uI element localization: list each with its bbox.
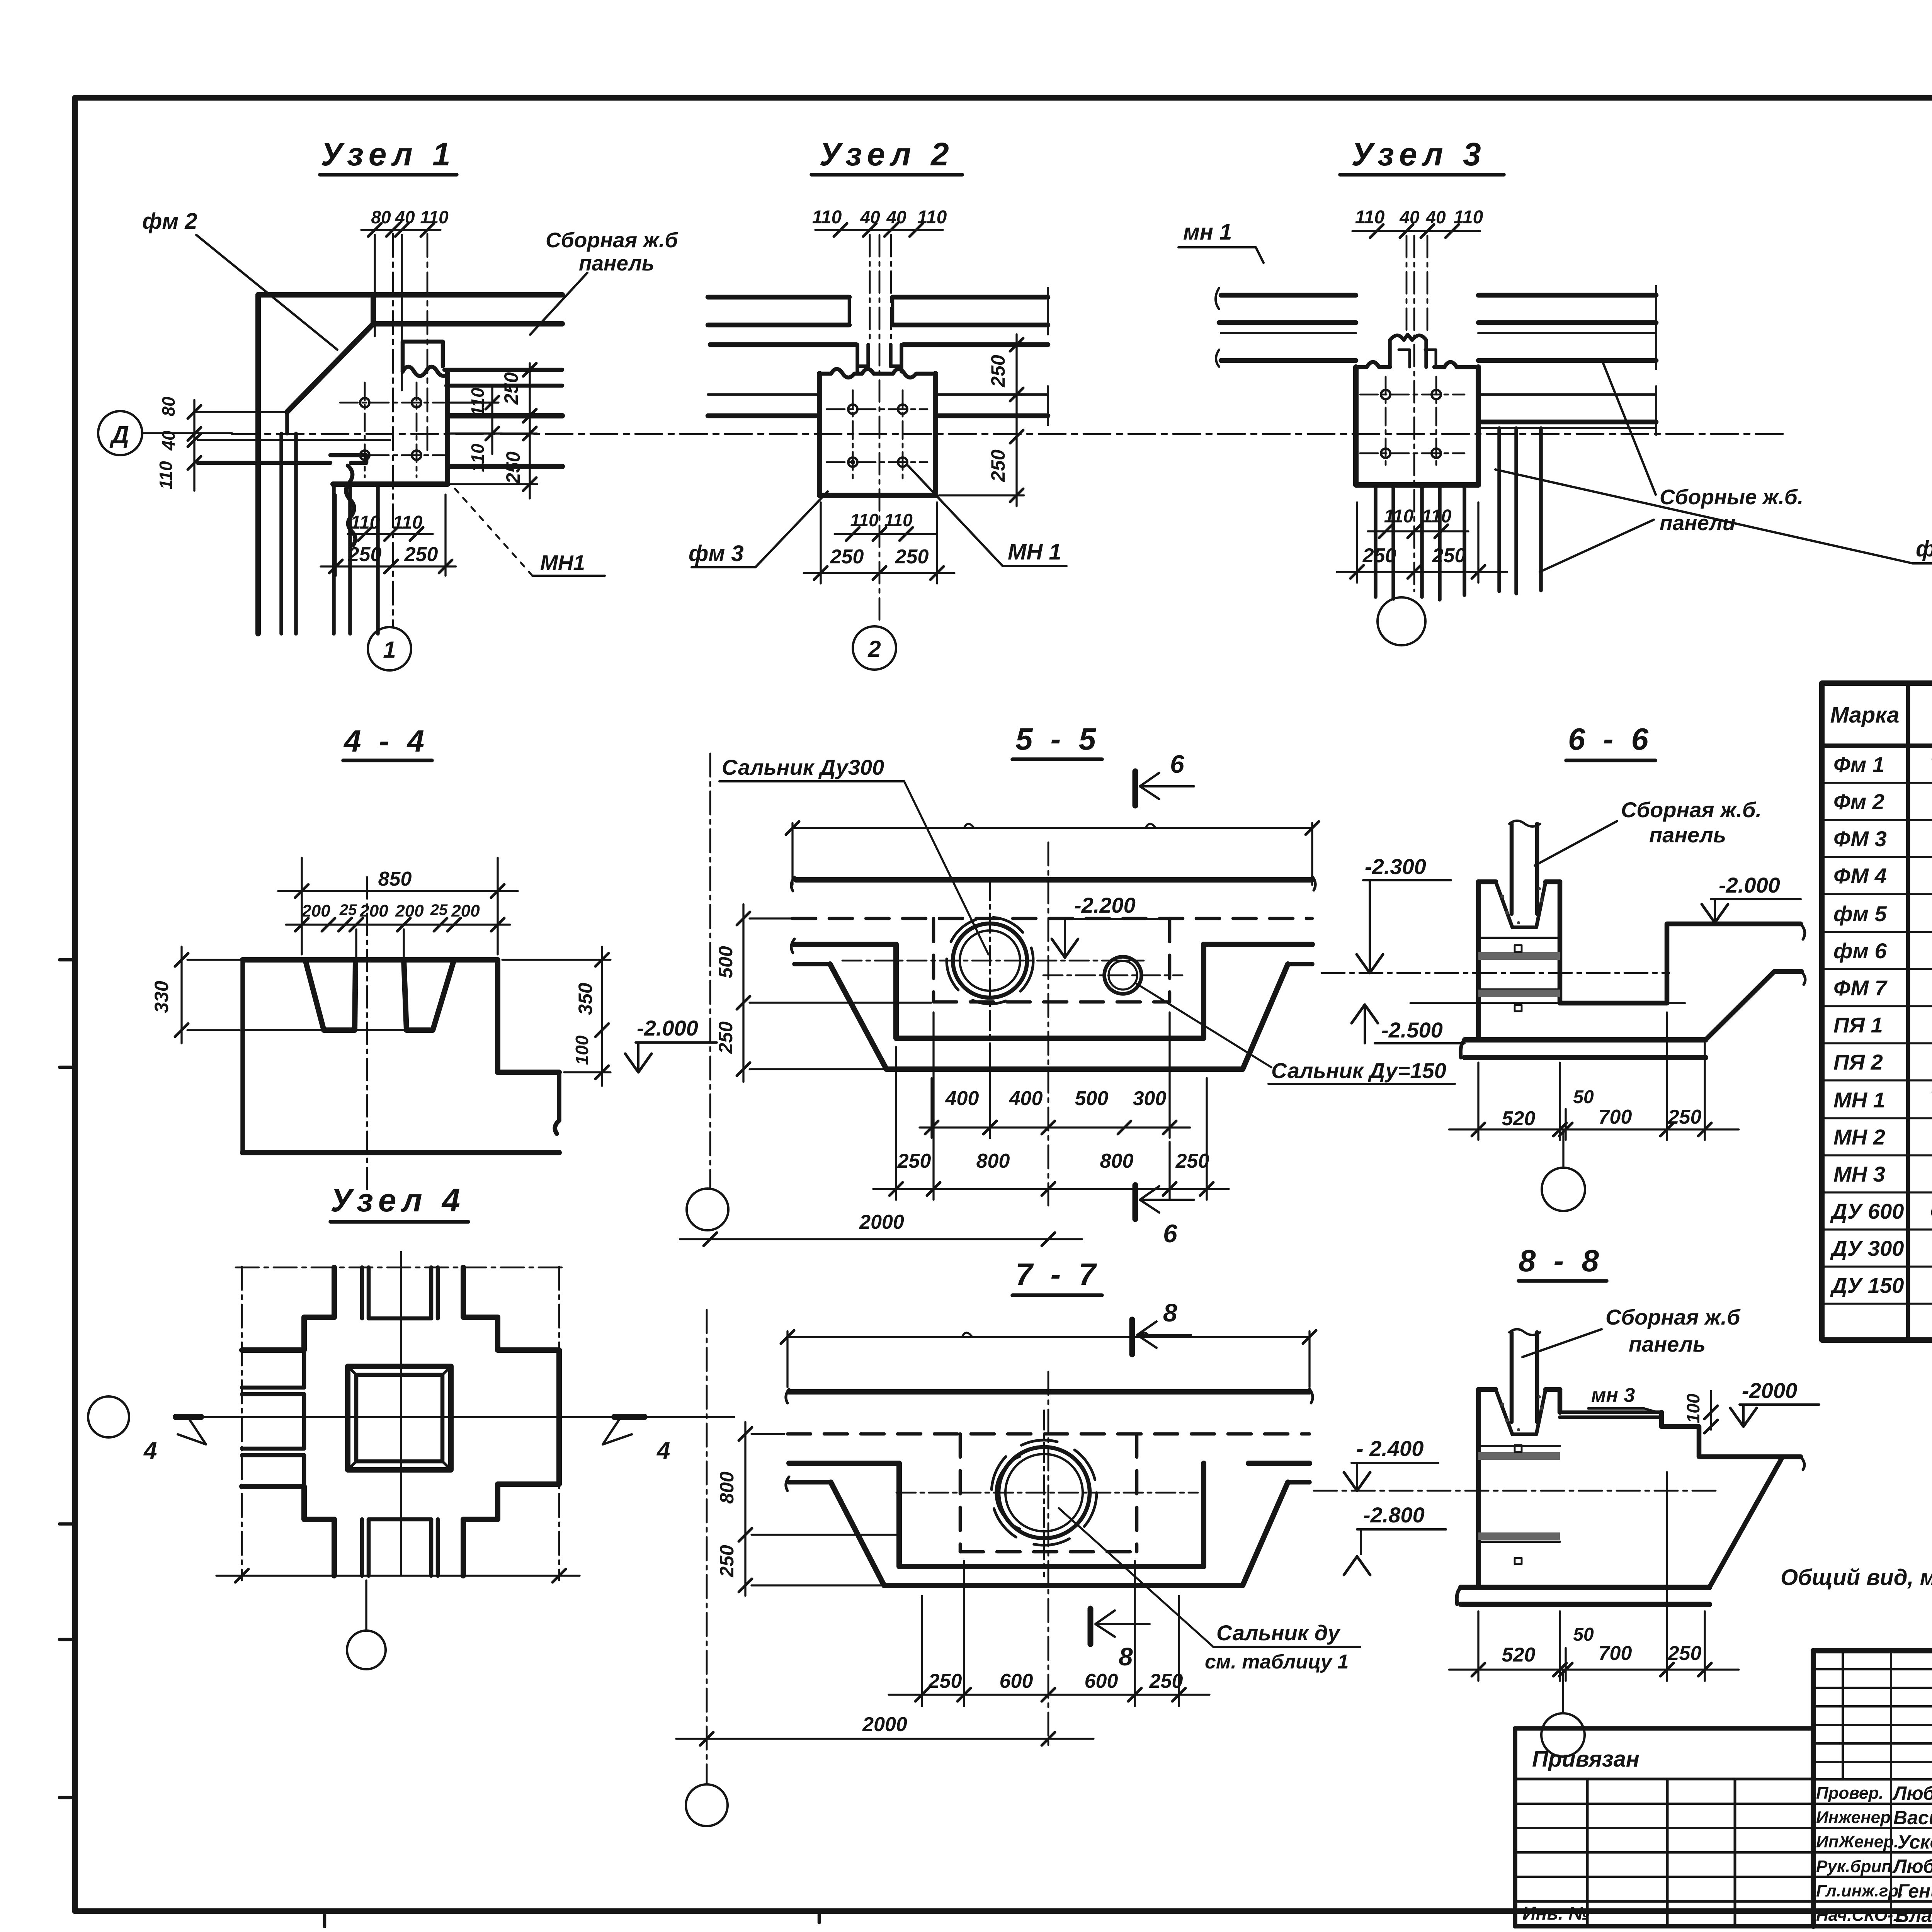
svg-text:250: 250 xyxy=(716,1545,738,1578)
svg-text:фм 2: фм 2 xyxy=(142,209,197,234)
svg-text:520: 520 xyxy=(1502,1644,1536,1666)
svg-text:110: 110 xyxy=(350,512,380,533)
signature rows xyxy=(1813,1804,1932,1901)
bolts uzel3 xyxy=(1381,390,1390,399)
svg-text:ДУ 150: ДУ 150 xyxy=(1830,1273,1904,1298)
V socket dots 8-8 xyxy=(1500,1395,1544,1431)
svg-text:4: 4 xyxy=(656,1437,670,1464)
hatch bands 8-8 xyxy=(1478,1445,1560,1564)
svg-text:250: 250 xyxy=(895,546,929,568)
svg-text:-2.300: -2.300 xyxy=(1365,854,1426,879)
svg-text:110: 110 xyxy=(850,510,879,530)
svg-text:50: 50 xyxy=(1573,1624,1594,1645)
svg-text:Сборная ж.б.: Сборная ж.б. xyxy=(1621,798,1762,822)
bottom arm walls xyxy=(362,1519,438,1576)
svg-text:250: 250 xyxy=(1432,544,1466,567)
section 6 mark bottom xyxy=(1133,1185,1138,1219)
svg-text:-2.000: -2.000 xyxy=(1719,873,1780,897)
svg-text:Васильева: Васильева xyxy=(1893,1807,1932,1828)
left socket below axis xyxy=(330,455,366,463)
svg-text:110: 110 xyxy=(393,512,423,533)
svg-text:600: 600 xyxy=(1000,1670,1033,1692)
bottom-right quadrant xyxy=(463,1484,559,1576)
bottom dim line uzel4 xyxy=(216,1575,580,1577)
floor right of column 8-8 xyxy=(1560,1412,1662,1417)
svg-text:250: 250 xyxy=(502,451,524,484)
svg-text:2: 2 xyxy=(867,636,881,662)
top dim line 7-7 xyxy=(787,1331,1310,1387)
top arm walls xyxy=(362,1267,438,1318)
right arm wall xyxy=(556,1350,562,1484)
svg-text:500: 500 xyxy=(1075,1087,1109,1110)
svg-text:-2.000: -2.000 xyxy=(637,1016,698,1040)
svg-text:80: 80 xyxy=(158,396,179,417)
chamfer xyxy=(287,324,373,412)
svg-text:250: 250 xyxy=(987,355,1009,388)
svg-text:50: 50 xyxy=(1573,1087,1594,1107)
column top wavy xyxy=(820,369,935,378)
svg-text:МН 1: МН 1 xyxy=(1008,539,1061,565)
svg-text:-2.800: -2.800 xyxy=(1363,1503,1425,1527)
svg-text:250: 250 xyxy=(830,546,864,568)
svg-text:800: 800 xyxy=(716,1471,738,1504)
svg-text:Узел 4: Узел 4 xyxy=(330,1182,466,1218)
V socket dots xyxy=(1500,887,1544,924)
svg-text:8: 8 xyxy=(1119,1642,1133,1671)
svg-text:ФМ 4: ФМ 4 xyxy=(1833,864,1887,888)
svg-text:Рук.брип: Рук.брип xyxy=(1816,1857,1892,1876)
svg-text:ПЯ 1: ПЯ 1 xyxy=(1833,1013,1883,1037)
leader panel label xyxy=(530,273,587,335)
svg-text:1: 1 xyxy=(383,637,396,663)
svg-text:Ускова: Ускова xyxy=(1897,1831,1932,1853)
svg-text:250: 250 xyxy=(1668,1642,1702,1665)
svg-text:фм 6: фм 6 xyxy=(1833,939,1887,963)
svg-text:- 2.400: - 2.400 xyxy=(1356,1436,1423,1461)
svg-text:Д: Д xyxy=(109,421,129,449)
svg-text:фм 4: фм 4 xyxy=(1916,536,1932,561)
svg-text:фм 3: фм 3 xyxy=(689,541,744,566)
column right edge xyxy=(445,372,450,484)
svg-text:8: 8 xyxy=(1163,1298,1177,1327)
svg-text:250: 250 xyxy=(348,543,382,566)
svg-text:Власкин: Власкин xyxy=(1895,1905,1932,1926)
Privyazan box xyxy=(1515,1728,1813,1926)
svg-text:мн 3: мн 3 xyxy=(1591,1384,1635,1406)
svg-text:110: 110 xyxy=(468,388,488,416)
central square inner xyxy=(356,1375,442,1461)
piles below xyxy=(1376,485,1464,600)
svg-text:700: 700 xyxy=(1599,1106,1632,1128)
svg-text:250: 250 xyxy=(928,1670,962,1692)
svg-text:Гл.инж.гр.: Гл.инж.гр. xyxy=(1816,1881,1903,1900)
svg-text:40: 40 xyxy=(1425,207,1446,227)
svg-text:40: 40 xyxy=(1399,207,1420,227)
svg-text:см. таблицу 1: см. таблицу 1 xyxy=(1205,1651,1349,1673)
svg-text:6: 6 xyxy=(1170,750,1185,778)
piles below column xyxy=(334,484,378,634)
svg-text:2000: 2000 xyxy=(862,1713,907,1736)
section 8 mark top xyxy=(1129,1320,1135,1354)
panel in socket 8-8 xyxy=(1457,1329,1804,1604)
section 4 marks xyxy=(176,1414,201,1420)
uzel4 cross outline xyxy=(242,1267,559,1576)
svg-text:250: 250 xyxy=(897,1150,931,1172)
axis 4-4 xyxy=(366,877,368,1194)
bevels xyxy=(348,1366,451,1470)
svg-text:ДУ 300: ДУ 300 xyxy=(1830,1236,1904,1260)
svg-text:110: 110 xyxy=(1355,207,1385,228)
svg-text:ФМ 3: ФМ 3 xyxy=(1833,827,1887,851)
outer borders xyxy=(1813,1648,1932,1653)
svg-text:ТП 901-6-62— КЖ 2÷5: ТП 901-6-62— КЖ 2÷5 xyxy=(1930,752,1932,777)
svg-text:фм 5: фм 5 xyxy=(1833,901,1887,926)
svg-text:Сборная ж.б: Сборная ж.б xyxy=(546,228,679,252)
column uzel3 xyxy=(1356,367,1478,485)
panel in socket 6-6 xyxy=(1461,821,1805,1058)
upper-left grid verticals xyxy=(1843,1651,1932,1926)
svg-text:110: 110 xyxy=(884,510,913,530)
hidden dashed lines xyxy=(793,918,1312,1002)
left dims 500 250 xyxy=(743,904,931,1082)
panels uzel2 xyxy=(708,288,1048,495)
svg-text:ПЯ 2: ПЯ 2 xyxy=(1833,1050,1883,1074)
signature table texts xyxy=(1816,1784,1903,1925)
svg-text:панель: панель xyxy=(579,251,655,275)
dims right of uzel1: 110/250 xyxy=(450,363,537,498)
svg-text:800: 800 xyxy=(976,1150,1010,1172)
axis 6-6 xyxy=(1321,972,1669,974)
section 8 mark bottom xyxy=(1088,1609,1094,1644)
left vertical axis line xyxy=(709,753,711,1188)
svg-text:7 - 7: 7 - 7 xyxy=(1015,1257,1100,1291)
bottom-left quadrant xyxy=(242,1486,334,1576)
svg-text:200: 200 xyxy=(451,901,480,920)
bolt axes xyxy=(340,383,444,477)
left wall verticals xyxy=(255,295,261,634)
axes inside 5-5 xyxy=(989,881,991,1043)
hatch bands 6-6 xyxy=(1478,945,1560,1011)
axis circle uzel3 xyxy=(1378,597,1425,645)
panels uzel3 xyxy=(1216,286,1656,600)
axis circle D xyxy=(98,411,142,455)
column xyxy=(820,374,935,495)
svg-text:Узел 2: Узел 2 xyxy=(819,136,954,172)
svg-text:панель: панель xyxy=(1629,1332,1706,1356)
svg-text:Сальник Ду=150: Сальник Ду=150 xyxy=(1271,1058,1446,1083)
svg-text:110: 110 xyxy=(156,461,176,490)
svg-text:110: 110 xyxy=(812,207,842,228)
svg-text:330: 330 xyxy=(151,981,172,1013)
axis vertical uzel1 xyxy=(392,234,394,626)
circle 8-8 xyxy=(1562,1670,1564,1713)
svg-text:панели: панели xyxy=(1660,511,1735,535)
column bottom xyxy=(333,481,447,487)
hidden dashed lines 7-7 xyxy=(787,1434,1310,1552)
svg-text:Узел 3: Узел 3 xyxy=(1351,136,1486,172)
top slab lines xyxy=(198,295,562,634)
axis circle left xyxy=(88,1396,129,1437)
column 6-6 with V socket xyxy=(1496,882,1546,927)
right dims 250/250 xyxy=(939,334,1024,506)
panel socket top right xyxy=(403,342,443,372)
svg-text:100: 100 xyxy=(572,1035,592,1065)
svg-text:110: 110 xyxy=(1422,506,1452,527)
svg-text:5 - 5: 5 - 5 xyxy=(1015,722,1100,756)
top dim line 5-5 xyxy=(793,823,1312,885)
column 8-8 with V socket xyxy=(1496,1389,1546,1434)
circle 6-6 xyxy=(1562,1129,1564,1168)
svg-text:ТП 901-6-61— КЖИ-МН1: ТП 901-6-61— КЖИ-МН1 xyxy=(1930,1085,1932,1110)
svg-text:МН 2: МН 2 xyxy=(1833,1125,1885,1149)
bottom slab 6-6 xyxy=(1465,1037,1706,1043)
big pipe circle 7-7 xyxy=(998,1447,1090,1538)
leader FM2 xyxy=(196,235,337,350)
svg-text:Сборная ж.б: Сборная ж.б xyxy=(1605,1305,1741,1329)
svg-text:Геништа: Геништа xyxy=(1897,1880,1932,1902)
svg-text:МН1: МН1 xyxy=(540,551,585,575)
axis 8-8 xyxy=(1314,1490,1716,1492)
upper-left small grid rows xyxy=(1813,1669,1932,1779)
svg-text:Нач.СКО-1: Нач.СКО-1 xyxy=(1816,1906,1903,1925)
svg-text:600: 600 xyxy=(1085,1670,1118,1692)
axis circle bottom xyxy=(347,1631,386,1669)
svg-text:-2.500: -2.500 xyxy=(1381,1018,1443,1042)
svg-text:Инв. №: Инв. № xyxy=(1522,1903,1590,1924)
svg-text:2000: 2000 xyxy=(859,1211,904,1233)
svg-text:110: 110 xyxy=(468,444,488,472)
axis circle 1 xyxy=(368,627,411,670)
twin sockets top xyxy=(1390,335,1426,367)
svg-text:700: 700 xyxy=(1599,1642,1632,1665)
svg-text:4 - 4: 4 - 4 xyxy=(343,724,429,758)
main horizontal axis xyxy=(142,432,232,434)
svg-text:Любопытова: Любопытова xyxy=(1892,1782,1932,1804)
svg-text:Привязан: Привязан xyxy=(1532,1747,1639,1772)
section 6 mark top xyxy=(1133,771,1138,806)
dim line top uzel1 xyxy=(361,230,440,390)
axes 7-7 xyxy=(1043,1410,1045,1577)
panel joint sockets xyxy=(857,345,868,372)
svg-text:800: 800 xyxy=(1100,1150,1134,1172)
svg-text:4: 4 xyxy=(143,1437,157,1464)
svg-text:Провер.: Провер. xyxy=(1816,1784,1883,1803)
svg-text:ФМ 7: ФМ 7 xyxy=(1833,976,1888,1000)
svg-text:110: 110 xyxy=(1384,506,1414,527)
right panel lines xyxy=(444,368,562,372)
svg-text:520: 520 xyxy=(1502,1107,1536,1130)
svg-text:-2.200: -2.200 xyxy=(1074,893,1136,917)
svg-text:МН 3: МН 3 xyxy=(1833,1162,1885,1186)
svg-text:850: 850 xyxy=(378,868,412,890)
svg-text:250: 250 xyxy=(715,1021,736,1054)
svg-text:мн 1: мн 1 xyxy=(1183,219,1232,245)
bottom slab 8-8 xyxy=(1461,1585,1709,1590)
small pipe circle 5-5 xyxy=(1104,957,1141,994)
svg-text:200: 200 xyxy=(301,901,330,920)
svg-text:250: 250 xyxy=(500,372,522,405)
svg-text:250: 250 xyxy=(1362,544,1396,567)
svg-text:250: 250 xyxy=(1149,1670,1183,1692)
bolts uzel1 xyxy=(360,398,369,407)
table rows xyxy=(1830,752,1932,1298)
slab 5-5 xyxy=(791,876,1315,1069)
top-right quadrant xyxy=(463,1267,559,1350)
central square outer xyxy=(348,1366,451,1470)
svg-text:МН 1: МН 1 xyxy=(1833,1088,1885,1112)
svg-text:Сальник ду: Сальник ду xyxy=(1216,1621,1341,1645)
svg-text:Любопытова: Любопытова xyxy=(1892,1855,1932,1877)
svg-text:Серия 3.901-5: Серия 3.901-5 xyxy=(1930,1199,1932,1223)
svg-text:500: 500 xyxy=(715,946,736,978)
svg-text:6: 6 xyxy=(1163,1219,1178,1248)
svg-text:400: 400 xyxy=(1009,1087,1043,1110)
svg-text:Сальник Ду300: Сальник Ду300 xyxy=(722,755,884,779)
svg-text:8 - 8: 8 - 8 xyxy=(1519,1243,1604,1278)
svg-text:400: 400 xyxy=(945,1087,979,1110)
axis circle 2 xyxy=(853,626,896,670)
svg-text:Инженер: Инженер xyxy=(1816,1808,1891,1827)
svg-text:350: 350 xyxy=(575,983,596,1015)
svg-text:Марка: Марка xyxy=(1830,702,1899,728)
svg-text:Фм 2: Фм 2 xyxy=(1833,789,1884,814)
left dims 800 250 7-7 xyxy=(745,1422,896,1596)
svg-text:ИпЖенер.: ИпЖенер. xyxy=(1816,1832,1898,1851)
svg-text:Сборные ж.б.: Сборные ж.б. xyxy=(1660,485,1803,509)
svg-text:25: 25 xyxy=(339,901,357,918)
svg-text:250: 250 xyxy=(1175,1150,1209,1172)
svg-text:6 - 6: 6 - 6 xyxy=(1568,722,1653,756)
svg-text:-2000: -2000 xyxy=(1742,1378,1797,1403)
svg-text:ДУ 600: ДУ 600 xyxy=(1830,1199,1904,1223)
top-left quadrant xyxy=(242,1267,334,1350)
floor right of column xyxy=(1560,924,1801,1003)
big pipe circle 5-5 xyxy=(953,923,1027,998)
4-4 profile xyxy=(243,960,559,1153)
title underline xyxy=(320,173,457,177)
svg-text:25: 25 xyxy=(430,901,448,918)
right end ticks of panels xyxy=(1047,288,1049,425)
axes uzel4 xyxy=(236,1267,564,1580)
circle bottom 7-7 xyxy=(686,1784,728,1826)
svg-text:250: 250 xyxy=(987,449,1009,482)
bolts uzel2 xyxy=(848,405,857,414)
slab 7-7 xyxy=(786,1389,1313,1585)
svg-text:100: 100 xyxy=(1683,1393,1703,1423)
left arm walls xyxy=(242,1388,304,1455)
svg-text:Общий вид, маркировку узлов: Общий вид, маркировку узлов и разрезов с… xyxy=(1781,1565,1932,1590)
svg-text:250: 250 xyxy=(404,543,438,566)
circle bottom 5-5 xyxy=(687,1189,728,1230)
joint lines xyxy=(1478,937,1560,939)
svg-text:Фм 1: Фм 1 xyxy=(1833,752,1884,777)
svg-text:Узел 1: Узел 1 xyxy=(321,136,456,172)
joint lines 8-8 xyxy=(1478,1445,1560,1447)
svg-text:панель: панель xyxy=(1649,823,1726,847)
svg-text:300: 300 xyxy=(1133,1087,1167,1110)
